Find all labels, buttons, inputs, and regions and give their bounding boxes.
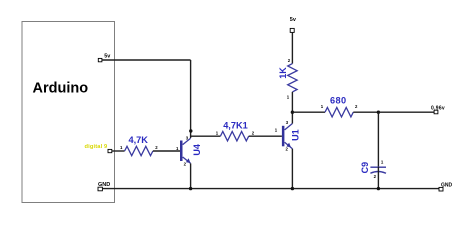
wire R3 down to node: [291, 92, 293, 112]
node junction output/C9: [377, 111, 380, 114]
wire node down to C9: [377, 112, 379, 167]
resistor R3 1K vertical: [288, 64, 297, 92]
node junction U4 emitter/rail: [189, 187, 192, 190]
node junction dot on collector line: [189, 129, 192, 132]
svg-text:U1: U1: [291, 129, 301, 141]
resistor R2 4,7K1: [220, 132, 248, 141]
pin 5v of Arduino: [98, 58, 102, 61]
capacitor C9: [360, 160, 386, 179]
wire R4 to output node: [353, 111, 378, 113]
transistor U1: [275, 120, 301, 152]
pin GND of Arduino: [98, 187, 102, 191]
node junction collector/1K/680: [291, 111, 294, 114]
wire node to R2: [191, 135, 221, 137]
wire U1 collector up to node: [291, 112, 293, 123]
resistor R4 680: [325, 108, 353, 117]
svg-text:Arduino: Arduino: [33, 81, 89, 97]
wire U1 emitter down to ground rail: [291, 149, 293, 189]
terminal 5v top: [290, 28, 294, 32]
wire digital9 to R1: [112, 150, 125, 152]
transistor U4: [176, 136, 202, 167]
wire 5v terminal down to R3: [291, 32, 293, 63]
svg-text:680: 680: [330, 95, 347, 105]
resistor R1 4,7K: [125, 146, 153, 155]
wire node to output terminal: [378, 111, 434, 113]
svg-text:U4: U4: [192, 144, 202, 156]
node junction U1 emitter/rail: [291, 187, 294, 190]
Arduino box U?: [22, 22, 115, 203]
svg-text:1K: 1K: [278, 67, 288, 79]
svg-text:5v: 5v: [290, 17, 297, 23]
svg-text:4,7K1: 4,7K1: [223, 120, 248, 130]
wire C9 down to ground rail: [377, 167, 379, 189]
wire vertical down to U4 collector: [190, 60, 192, 138]
pin digital 9 of Arduino: [108, 149, 112, 152]
ground rail wire: [102, 188, 439, 190]
wire R1 to U4 base: [153, 150, 180, 152]
wire 5v pin to corner: [102, 59, 191, 61]
terminal GND right: [439, 187, 443, 191]
svg-text:5v: 5v: [104, 53, 111, 59]
svg-text:digital 9: digital 9: [85, 144, 108, 150]
svg-text:GND: GND: [98, 182, 110, 188]
wire R2 to U1 base: [249, 135, 282, 137]
svg-text:0.96v: 0.96v: [431, 105, 445, 111]
svg-text:C9: C9: [360, 162, 370, 174]
wire U4 emitter down to ground rail: [190, 163, 192, 188]
svg-text:GND: GND: [441, 183, 453, 189]
node junction C9/rail: [377, 187, 380, 190]
wire node to R4: [292, 111, 325, 113]
terminal output 0.96v: [434, 110, 438, 114]
svg-text:4,7K: 4,7K: [129, 135, 149, 145]
